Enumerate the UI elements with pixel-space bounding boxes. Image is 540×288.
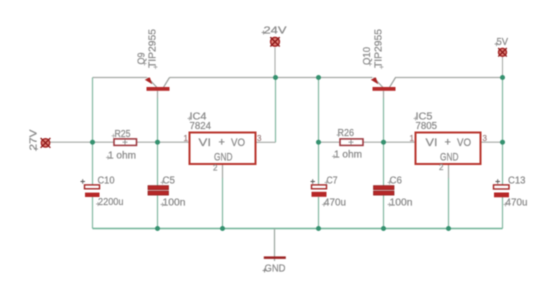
- svg-text:+: +: [219, 137, 225, 149]
- resistor R25: [114, 139, 137, 146]
- label Q10: [362, 47, 373, 66]
- svg-text:7824: 7824: [190, 121, 212, 132]
- ground: [264, 229, 286, 262]
- label C6: [388, 176, 403, 187]
- value label TIP2955 of Q10: [374, 29, 385, 69]
- wire IC5 VO pin horizontal: [481, 141, 503, 143]
- wire top rail Q9 collector to 24V node: [170, 77, 276, 79]
- junction R25 right node: [155, 140, 160, 145]
- svg-text:Q9: Q9: [137, 52, 148, 64]
- svg-text:C7: C7: [327, 176, 338, 187]
- capacitor C13 470u: [494, 179, 510, 197]
- junction IC5 VO node: [500, 140, 505, 145]
- value label 7824 of IC4: [190, 121, 212, 132]
- wire R26 left pin: [319, 141, 341, 143]
- junction ground rail IC4 GND: [220, 226, 225, 231]
- wire C6 bottom to ground rail: [383, 196, 385, 229]
- svg-text:VO: VO: [231, 137, 245, 149]
- junction ground rail C6: [381, 226, 386, 231]
- value label 100n of C5: [161, 198, 186, 209]
- junction ground rail IC5 GND: [446, 226, 451, 231]
- capacitor C7 470u: [311, 179, 327, 197]
- svg-text:24V: 24V: [264, 25, 287, 37]
- svg-text:VI: VI: [199, 137, 212, 149]
- junction top rail at 24V node: [273, 75, 278, 80]
- pin label VO of IC5: [457, 137, 471, 149]
- svg-text:R25: R25: [115, 129, 131, 140]
- label C5: [161, 176, 176, 187]
- svg-text:C6: C6: [390, 176, 403, 187]
- value label 470u of C7: [322, 198, 346, 209]
- value label 100n of C6: [388, 198, 413, 209]
- pin label VO of IC4: [231, 137, 245, 149]
- junction R25 left node: [90, 140, 95, 145]
- wire 5V supply stub: [502, 57, 504, 78]
- capacitor C6 100n: [374, 186, 395, 196]
- wire 5V node down through C13: [502, 142, 504, 184]
- svg-text:1: 1: [410, 134, 415, 143]
- label R25: [112, 129, 131, 140]
- supply symbol 27V input: [41, 138, 51, 148]
- pin number 1 of IC4: [184, 134, 189, 143]
- wire 24V node down to IC4 VO: [275, 78, 277, 143]
- svg-text:2: 2: [439, 163, 444, 172]
- op-amp-style regulator box IC5 7805: [416, 133, 481, 165]
- svg-text:470u: 470u: [506, 198, 528, 209]
- wire left vertical 27V rail: [92, 78, 94, 185]
- svg-text:470u: 470u: [324, 198, 346, 209]
- svg-text:VO: VO: [457, 137, 471, 149]
- pin number 2 of IC4: [213, 164, 218, 173]
- svg-text:5V: 5V: [497, 36, 509, 48]
- svg-text:+: +: [445, 137, 451, 149]
- pin number 1 of IC5: [410, 134, 415, 143]
- svg-text:GND: GND: [440, 152, 459, 164]
- wire C7 bottom to ground rail: [318, 197, 320, 229]
- wire ground rail: [93, 228, 503, 230]
- node label 5V: [495, 36, 509, 48]
- svg-text:R26: R26: [338, 128, 355, 139]
- pin label + of IC4: [219, 137, 225, 149]
- value label 7805 of IC5: [416, 121, 438, 132]
- junction top rail at 5V node: [500, 75, 505, 80]
- svg-text:C10: C10: [98, 176, 115, 187]
- junction R26 right node: [381, 140, 386, 145]
- wire 5V node down to IC5 VO: [502, 78, 504, 143]
- junction ground rail C7: [316, 226, 321, 231]
- supply symbol 24V: [270, 37, 279, 46]
- svg-text:27V: 27V: [28, 130, 40, 151]
- wire R25 node down to C5: [157, 142, 159, 185]
- wire node to IC4 VI pin: [158, 141, 190, 143]
- label C13: [508, 176, 526, 187]
- svg-text:TIP2955: TIP2955: [374, 29, 385, 68]
- pin label VI of IC5: [426, 137, 438, 149]
- svg-text:1 ohm: 1 ohm: [334, 150, 362, 161]
- svg-text:C5: C5: [163, 176, 176, 187]
- wire C5 bottom to ground rail: [157, 196, 159, 229]
- label Q9: [137, 52, 148, 65]
- value label 1 ohm of R25: [106, 151, 136, 162]
- junction ground rail C5: [155, 226, 160, 231]
- junction top rail at R26 branch: [316, 75, 321, 80]
- supply symbol 5V: [498, 48, 507, 57]
- wire R26 right pin to node: [363, 141, 384, 143]
- wire C13 bottom to ground rail: [502, 197, 504, 229]
- svg-text:1 ohm: 1 ohm: [108, 151, 136, 162]
- value label 470u of C13: [504, 198, 528, 209]
- svg-text:2: 2: [213, 164, 218, 173]
- wire R26 node down through C7 top: [318, 142, 320, 184]
- svg-text:3: 3: [483, 134, 488, 143]
- svg-text:7805: 7805: [416, 121, 438, 132]
- capacitor C10 2200u: [81, 179, 100, 197]
- wire top rail R26 branch to Q10 emitter: [319, 77, 373, 79]
- wire R25 right pin to node: [137, 141, 158, 143]
- svg-text:GND: GND: [265, 263, 286, 275]
- transistor Q9 TIP2955: [145, 77, 170, 91]
- pin label GND of IC4: [214, 152, 233, 164]
- wire 24V supply stub: [274, 48, 276, 78]
- wire IC4 GND pin down to ground rail: [222, 164, 224, 229]
- wire node to IC5 VI pin: [384, 141, 416, 143]
- svg-text:2200u: 2200u: [98, 197, 124, 208]
- wire top rail Q10 collector to 5V node: [395, 77, 503, 79]
- node label 27V: [28, 130, 40, 152]
- wire C10 bottom to ground rail: [92, 197, 94, 229]
- pin number 2 of IC5: [439, 163, 444, 172]
- wire Q10 base down to R26 node: [383, 91, 385, 142]
- pin number 3 of IC4: [257, 134, 262, 143]
- label C7: [325, 176, 338, 187]
- svg-text:100n: 100n: [163, 198, 186, 209]
- svg-text:1: 1: [184, 134, 189, 143]
- wire IC4 VO pin horizontal: [256, 141, 276, 143]
- pin label VI of IC4: [199, 137, 212, 149]
- pin label GND of IC5: [440, 152, 459, 164]
- wire top rail 24V node to R26 branch: [276, 77, 319, 79]
- svg-text:GND: GND: [214, 152, 233, 164]
- label R26: [337, 128, 355, 139]
- svg-text:Q10: Q10: [362, 47, 373, 65]
- transistor Q10 TIP2955: [371, 77, 396, 91]
- label IC4: [188, 112, 207, 123]
- label C10: [98, 176, 115, 187]
- resistor R26: [340, 139, 363, 146]
- wire R26 branch vertical from top rail: [318, 78, 320, 143]
- node label 24V: [262, 25, 287, 37]
- label IC5: [414, 112, 433, 123]
- value label 2200u of C10: [96, 197, 124, 208]
- wire R25 left pin: [93, 141, 115, 143]
- op-amp-style regulator box IC4 7824: [190, 133, 256, 165]
- value label 1 ohm of R26: [332, 150, 362, 161]
- svg-text:TIP2955: TIP2955: [148, 29, 159, 68]
- wire IC5 GND pin down to ground rail: [448, 164, 450, 229]
- svg-text:VI: VI: [426, 137, 438, 149]
- wire Q9 base down to R25 node: [157, 91, 159, 142]
- capacitor C5 100n: [148, 186, 169, 196]
- svg-text:C13: C13: [508, 176, 526, 187]
- junction R26 left node: [316, 140, 321, 145]
- wire 27V input horizontal: [50, 141, 93, 143]
- pin number 3 of IC5: [483, 134, 488, 143]
- node label GND: [263, 263, 286, 275]
- svg-text:3: 3: [257, 134, 262, 143]
- wire R26 node down to C6: [383, 142, 385, 185]
- value label TIP2955 of Q9: [148, 29, 159, 69]
- pin label + of IC5: [445, 137, 451, 149]
- wire top rail left (27V rail to Q9 emitter): [93, 77, 148, 79]
- svg-text:100n: 100n: [390, 198, 413, 209]
